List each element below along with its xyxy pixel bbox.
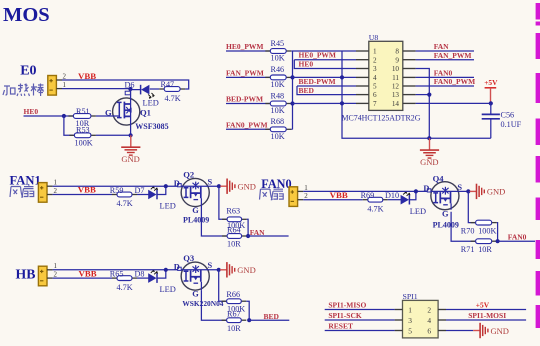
svg-text:FAN0_PWM: FAN0_PWM: [226, 120, 268, 129]
svg-text:SPI1-MISO: SPI1-MISO: [328, 301, 366, 310]
wire R63 down: [247, 219, 249, 236]
svg-text:R71: R71: [461, 245, 475, 254]
resistor R71 10R: [461, 239, 497, 254]
wire to pin4: [293, 76, 357, 78]
resistor R63 100K: [222, 206, 247, 230]
svg-text:2: 2: [63, 72, 67, 80]
resistor R66 100K: [222, 290, 247, 314]
ground GND U8: [420, 138, 439, 167]
resistor R64 10R: [222, 225, 247, 248]
LED D10: [385, 191, 426, 216]
node bus: [290, 101, 294, 105]
wire BED: [249, 319, 289, 321]
resistor R70 100K: [461, 220, 497, 235]
svg-text:G: G: [192, 206, 199, 215]
svg-text:GND: GND: [487, 187, 505, 197]
wire LED to drain: [409, 191, 416, 199]
node FAN0 node: [496, 239, 500, 243]
svg-text:GND: GND: [237, 265, 255, 275]
svg-text:10R: 10R: [227, 324, 241, 333]
svg-text:7: 7: [373, 100, 377, 108]
svg-text:SPI1-SCK: SPI1-SCK: [328, 311, 362, 320]
svg-text:100K: 100K: [478, 226, 496, 235]
wire: [291, 76, 292, 78]
svg-text:WSK220N04: WSK220N04: [182, 299, 223, 308]
ground GND SPI1: [473, 323, 509, 338]
svg-text:13: 13: [392, 91, 400, 99]
node gnd junction: [427, 136, 431, 140]
svg-text:1: 1: [54, 179, 58, 187]
svg-text:D8: D8: [135, 269, 145, 278]
svg-text:9: 9: [395, 56, 399, 64]
svg-text:HE0: HE0: [24, 107, 39, 116]
wire R70 down: [496, 223, 499, 242]
wire LED to drain: [157, 270, 166, 278]
svg-text:4.7K: 4.7K: [117, 283, 133, 292]
transistor Q2 PL4009: [178, 170, 210, 225]
svg-text:D: D: [423, 184, 429, 193]
connector SPI1: [395, 292, 446, 338]
svg-text:10K: 10K: [271, 106, 285, 115]
wire R66 down: [246, 301, 249, 320]
svg-text:4: 4: [427, 316, 431, 325]
svg-text:1: 1: [373, 48, 377, 56]
svg-text:10R: 10R: [227, 240, 241, 249]
svg-text:SPI1: SPI1: [403, 292, 418, 301]
wire FAN0_PWM: [226, 128, 270, 130]
wire VBB E0: [62, 80, 189, 89]
wire HE0_PWM pin2: [294, 59, 356, 61]
node HB drain: [164, 268, 168, 272]
svg-text:R70: R70: [461, 226, 475, 235]
transistor Q4 PL4009: [427, 173, 459, 229]
wire BED pin6: [297, 86, 356, 95]
wire S to R70: [468, 191, 475, 222]
svg-text:E0: E0: [20, 64, 36, 79]
svg-text:R64: R64: [227, 225, 241, 234]
wire BED-PWM pin5: [297, 85, 356, 87]
resistor R53 100K: [69, 125, 96, 147]
svg-text:Q4: Q4: [433, 173, 445, 183]
resistor R65 4.7K: [110, 269, 137, 291]
label 加热棒: [3, 84, 44, 97]
wire gate Q3: [201, 290, 226, 320]
svg-text:R59: R59: [110, 186, 124, 195]
svg-text:FAN1: FAN1: [10, 173, 41, 187]
wire drain E0: [62, 89, 141, 90]
wire VBB FAN0: [303, 199, 363, 201]
wire S to R66: [219, 270, 226, 301]
svg-text:GND: GND: [491, 326, 509, 336]
wire BED-PWM: [226, 103, 270, 105]
ground GND Q4: [470, 184, 506, 199]
svg-text:+5V: +5V: [484, 78, 498, 87]
svg-text:GND: GND: [121, 154, 139, 164]
wire drain FAN0: [303, 190, 427, 192]
svg-text:FAN_PWM: FAN_PWM: [434, 51, 472, 60]
svg-text:5: 5: [373, 83, 377, 91]
svg-text:R51: R51: [76, 107, 90, 116]
svg-text:10K: 10K: [271, 80, 285, 89]
ground GND Q3: [220, 262, 256, 277]
svg-text:4: 4: [373, 74, 377, 82]
resistor R69 4.7K: [361, 191, 388, 213]
svg-text:S: S: [457, 183, 462, 192]
svg-text:SPI1-MOSI: SPI1-MOSI: [468, 311, 506, 320]
svg-text:+5V: +5V: [476, 300, 490, 309]
wire gate Q4: [451, 212, 475, 242]
ground GND E0: [121, 135, 140, 164]
wire HE0_PWM: [226, 50, 270, 52]
svg-text:2: 2: [54, 187, 58, 195]
wire vertical bus: [292, 51, 294, 129]
wire SPI1-SCK: [325, 319, 395, 321]
svg-text:5: 5: [408, 327, 412, 336]
svg-text:HE0_PWM: HE0_PWM: [226, 42, 264, 51]
resistor R59 4.7K: [110, 186, 137, 208]
resistor R51 10R: [68, 107, 96, 128]
wire to pin1: [293, 50, 357, 52]
wire FAN_PWM pin9: [416, 59, 474, 61]
wire S to R63: [219, 186, 227, 219]
svg-text:6: 6: [373, 91, 377, 99]
svg-text:GND: GND: [420, 157, 438, 167]
svg-text:Q1: Q1: [140, 108, 151, 118]
svg-text:D: D: [174, 179, 180, 188]
svg-text:S: S: [208, 261, 213, 270]
wire: [150, 88, 159, 90]
svg-text:LED: LED: [143, 99, 159, 108]
power +5V: [484, 78, 498, 104]
svg-text:LED: LED: [160, 285, 176, 294]
svg-text:HB: HB: [16, 266, 36, 281]
svg-text:100K: 100K: [75, 139, 93, 148]
svg-text:MC74HCT125ADTR2G: MC74HCT125ADTR2G: [342, 114, 421, 123]
svg-text:D7: D7: [135, 186, 145, 195]
node Q2 source: [217, 184, 221, 188]
wire gnd bus: [342, 51, 491, 138]
wire gate Q2: [201, 207, 226, 237]
svg-text:3: 3: [408, 316, 412, 325]
node Q1 source: [129, 133, 133, 137]
resistor R46 10K: [265, 65, 291, 89]
wire pin10 down: [416, 69, 430, 139]
svg-text:10R: 10R: [478, 245, 492, 254]
wire to pin7: [293, 102, 357, 104]
svg-text:MOS: MOS: [3, 4, 50, 26]
svg-text:RESET: RESET: [328, 322, 353, 331]
svg-text:R67: R67: [227, 309, 241, 318]
node FAN node: [246, 234, 250, 238]
node E0 drain: [128, 87, 132, 91]
wire drain FAN1: [53, 185, 178, 187]
svg-text:1: 1: [408, 306, 412, 315]
IC U8 MC74HCT125ADTR2G: [342, 33, 421, 123]
resistor R68 10K: [265, 117, 291, 141]
wire D-S Q4: [431, 190, 468, 192]
svg-text:R68: R68: [271, 117, 285, 126]
wire pin6: [446, 330, 473, 332]
svg-text:4.7K: 4.7K: [165, 94, 181, 103]
wire drain HB: [53, 269, 178, 271]
svg-text:R45: R45: [271, 39, 285, 48]
wire VBB FAN1: [53, 194, 112, 196]
LED D6: [125, 81, 159, 108]
wire: [137, 194, 149, 196]
svg-text:WSF3085: WSF3085: [135, 122, 168, 131]
svg-text:FAN0_PWM: FAN0_PWM: [434, 77, 476, 86]
wire FAN0_PWM pin12: [416, 85, 474, 87]
wire LED to drain: [157, 186, 166, 194]
svg-text:3: 3: [373, 65, 377, 73]
svg-text:1: 1: [304, 184, 308, 192]
wire to R53: [64, 116, 75, 135]
connector P-E0: [48, 72, 67, 95]
svg-text:G: G: [192, 289, 199, 298]
svg-text:6: 6: [427, 327, 431, 336]
label 风扇 (FAN1): [10, 185, 34, 197]
svg-text:R47: R47: [161, 80, 175, 89]
svg-text:2: 2: [54, 271, 58, 279]
svg-text:D: D: [174, 262, 180, 271]
resistor R45 10K: [265, 39, 291, 63]
wire FAN0 pin11: [416, 76, 474, 78]
wire R53 to source: [96, 134, 131, 136]
svg-text:GND: GND: [238, 182, 256, 192]
svg-text:R53: R53: [76, 125, 90, 134]
wire gate Q1: [96, 115, 119, 117]
wire: [137, 277, 149, 279]
transistor Q3 WSK220N04: [178, 253, 224, 308]
svg-text:1: 1: [63, 81, 67, 89]
wire +5V: [446, 309, 526, 311]
wire RESET: [325, 330, 395, 332]
wire SPI1-MOSI: [446, 319, 526, 321]
resistor R67 10R: [222, 309, 247, 333]
svg-text:D10: D10: [385, 191, 399, 200]
svg-text:2: 2: [427, 306, 431, 315]
node gnd bus: [340, 75, 344, 79]
transistor Q1 WSF3085: [105, 89, 169, 135]
svg-text:4.7K: 4.7K: [117, 199, 133, 208]
svg-text:10K: 10K: [271, 132, 285, 141]
svg-text:BED: BED: [299, 86, 315, 95]
svg-text:HE0_PWM: HE0_PWM: [299, 51, 337, 60]
svg-text:R66: R66: [226, 290, 240, 299]
svg-text:PL4009: PL4009: [183, 216, 209, 225]
svg-text:14: 14: [392, 100, 400, 108]
svg-text:PL4009: PL4009: [433, 220, 459, 229]
svg-text:R65: R65: [110, 269, 124, 278]
svg-text:R63: R63: [226, 206, 240, 215]
wire D-S Q3: [181, 269, 219, 271]
LED D7: [135, 186, 176, 211]
wire D-S Q2: [181, 185, 219, 187]
svg-text:12: 12: [392, 83, 400, 91]
node FAN0 drain: [414, 189, 418, 193]
resistor R47 4.7K: [159, 80, 185, 103]
node bus: [290, 75, 294, 79]
svg-text:R48: R48: [271, 91, 285, 100]
svg-text:G: G: [442, 210, 449, 219]
svg-text:LED: LED: [410, 207, 426, 216]
svg-text:4.7K: 4.7K: [367, 204, 383, 213]
svg-text:BED: BED: [264, 312, 280, 321]
connector P-FAN0: [289, 184, 308, 207]
wire FAN_PWM: [226, 76, 270, 78]
resistor R48 10K: [265, 91, 291, 115]
svg-text:S: S: [208, 178, 213, 187]
svg-text:Q2: Q2: [183, 170, 194, 180]
svg-text:HE0: HE0: [299, 60, 314, 69]
svg-text:2: 2: [373, 56, 377, 64]
svg-text:1: 1: [54, 262, 58, 270]
svg-text:C56: C56: [501, 111, 515, 120]
wire FAN pin8: [416, 50, 474, 52]
ground GND Q2: [220, 179, 256, 194]
svg-text:10: 10: [392, 65, 400, 73]
capacitor C56 0.1UF: [482, 103, 522, 138]
wire VBB HB: [53, 277, 112, 279]
svg-text:11: 11: [392, 74, 399, 82]
wire FAN: [248, 235, 289, 237]
wire SPI1-MISO: [325, 309, 395, 311]
wire: [291, 103, 292, 105]
svg-text:2: 2: [304, 192, 308, 200]
svg-text:0.1UF: 0.1UF: [501, 120, 522, 129]
node FAN1 drain: [164, 184, 168, 188]
svg-text:FAN: FAN: [434, 42, 449, 51]
svg-text:10K: 10K: [271, 54, 285, 63]
svg-text:R46: R46: [271, 65, 285, 74]
svg-text:FAN_PWM: FAN_PWM: [226, 68, 264, 77]
svg-text:LED: LED: [160, 202, 176, 211]
node HE0 branch: [62, 114, 66, 118]
node pin13 junction: [427, 93, 431, 97]
wire: [291, 128, 292, 130]
node gnd bus: [340, 101, 344, 105]
node BED node: [247, 318, 251, 322]
wire pin14: [416, 102, 491, 104]
node +5V node: [489, 101, 493, 105]
node Q3 source: [217, 268, 221, 272]
connector P-HB: [38, 262, 57, 286]
svg-text:8: 8: [395, 48, 399, 56]
connector P-FAN1: [38, 179, 57, 203]
svg-text:FAN0: FAN0: [508, 233, 527, 242]
svg-text:R69: R69: [361, 191, 375, 200]
LED D8: [135, 269, 176, 294]
svg-text:Q3: Q3: [183, 253, 194, 263]
svg-text:U8: U8: [369, 33, 379, 42]
svg-text:BED-PWM: BED-PWM: [226, 95, 263, 104]
label 风扇 (FAN0): [260, 188, 284, 200]
wire: [388, 199, 401, 201]
wire pin13: [416, 94, 430, 96]
wire: [291, 50, 292, 52]
node Q4 source: [466, 189, 470, 193]
wire HE0: [24, 115, 74, 117]
wire HE0 pin3: [294, 60, 356, 69]
wire FAN0 net: [498, 240, 535, 242]
